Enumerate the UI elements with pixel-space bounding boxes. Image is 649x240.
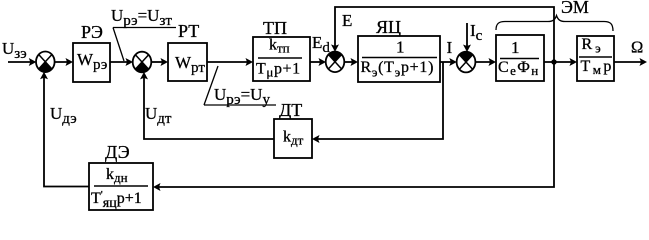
- block ТП (kтп / Tμp+1): [253, 37, 310, 82]
- label РЭ: [81, 22, 103, 42]
- label Uрэ=Uу with underline and pointer line: [204, 66, 276, 108]
- label ЭМ: [561, 0, 589, 17]
- wire РТ to block ТП: [207, 58, 253, 66]
- label РТ: [178, 21, 199, 41]
- svg-text:Ω: Ω: [631, 38, 643, 57]
- brace ЭМ over the two motor blocks: [496, 16, 613, 32]
- block ЯЦ (1 / Rэ(Tэp+1)): [358, 36, 440, 82]
- wire CеФн to block Rэ/Tмp: [544, 58, 577, 66]
- label Uзэ (input signal): [2, 39, 27, 62]
- wire EMF feedback top (junction to S3): [331, 7, 554, 62]
- wire S2 to block РТ: [151, 58, 168, 66]
- wire S4 to block CеФн: [475, 58, 496, 66]
- block РЭ (Wрэ): [73, 43, 110, 82]
- wire ДЭ output up into S1: [40, 72, 89, 187]
- wire EMF feedback bottom (junction down to ДЭ): [153, 62, 554, 191]
- label ЯЦ: [376, 17, 401, 37]
- label I: [447, 38, 453, 57]
- wire ТП to sum S3: [310, 58, 326, 66]
- wire input to sum S1: [8, 58, 36, 66]
- wire РЭ to sum S2: [110, 58, 133, 66]
- block CеФн (1 / CеФн): [496, 35, 544, 81]
- node EMF junction dot: [551, 59, 556, 64]
- svg-text:РТ: РТ: [178, 21, 199, 41]
- svg-text:1: 1: [511, 38, 520, 57]
- svg-text:ЭМ: ЭМ: [561, 0, 589, 17]
- wire S3 to block ЯЦ: [344, 58, 358, 66]
- svg-text:Tμp+1: Tμp+1: [256, 61, 301, 80]
- label Ed: [312, 33, 330, 56]
- label ДЭ: [105, 142, 130, 162]
- block РТ (Wрт): [168, 43, 207, 81]
- wire output Ω: [614, 58, 647, 66]
- wire S1 to block РЭ: [54, 58, 73, 66]
- svg-text:РЭ: РЭ: [81, 22, 103, 42]
- label Uрэ=Uзт with underline and pointer line: [111, 6, 176, 61]
- label Ic: [470, 21, 483, 44]
- summing junction S4: [457, 52, 476, 73]
- svg-text:ДЭ: ДЭ: [105, 142, 130, 162]
- label Uдэ: [50, 104, 77, 127]
- svg-text:ЯЦ: ЯЦ: [376, 17, 401, 37]
- summing junction S3: [326, 52, 345, 73]
- summing junction S1: [36, 52, 55, 73]
- svg-text:I: I: [447, 38, 453, 57]
- label E: [342, 11, 352, 30]
- svg-text:ТП: ТП: [263, 18, 287, 38]
- svg-text:E: E: [342, 11, 352, 30]
- block ДТ (kдт): [274, 119, 312, 158]
- label Ω: [631, 38, 643, 57]
- block ДЭ (kдн / T'яцp+1): [89, 163, 153, 211]
- label Uдт: [145, 104, 172, 127]
- label ДТ: [279, 100, 302, 120]
- wire ЯЦ to sum S4: [440, 58, 457, 66]
- wire current feedback branch down to ДТ: [312, 62, 443, 143]
- wire Ic input into S4: [463, 23, 471, 52]
- svg-text:ДТ: ДТ: [279, 100, 302, 120]
- summing junction S2: [133, 52, 152, 73]
- wire ДТ output up into S2: [140, 72, 274, 139]
- label ТП: [263, 18, 287, 38]
- svg-text:1: 1: [396, 38, 405, 57]
- block Rэ/Tмp: [577, 36, 614, 81]
